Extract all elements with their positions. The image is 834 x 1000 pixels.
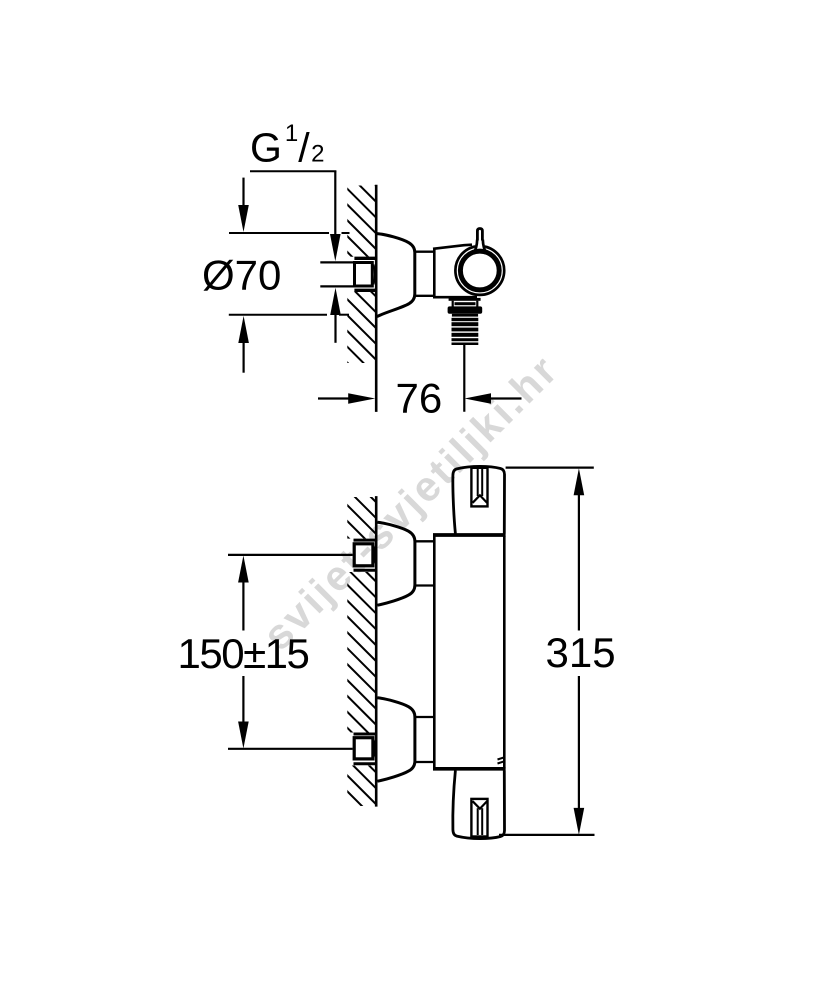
G1/2 shelf line [250,170,336,172]
arrow down left (to escutcheon top) [238,178,249,232]
315 top extension line [506,467,594,469]
union nut (top view) [355,263,373,287]
upper escutcheon [378,522,415,605]
dash of centerline bottom [339,314,349,316]
outlet neck [452,301,454,307]
outlet mark on body [498,757,505,759]
knob thick ring [460,251,499,290]
svg-text:315: 315 [546,629,616,676]
arrow up right (to pipe bottom) [330,288,341,343]
lever funnel white mask [472,239,488,255]
arrow up left (to escutcheon bottom) [238,316,249,373]
wall hatching (bottom view) [340,466,376,820]
lower nut cap curve [374,740,376,758]
upper nut cap curve [374,546,376,565]
315 bottom extension line [499,834,595,836]
lower escutcheon [378,698,415,781]
lower union nut [354,738,373,759]
top handle [453,466,505,533]
flange lines behind nut (top view) [354,257,375,260]
bottom handle grip [471,799,487,837]
315 dim line top segment + arrow up [574,468,585,630]
supply pipe lines [320,261,353,263]
lower neck lines [415,716,434,718]
svg-text:Ø70: Ø70 [202,252,281,299]
lower extension line (150 bottom) [228,748,353,750]
svg-text:76: 76 [396,375,443,422]
upper union nut [354,544,373,566]
nut end cap curve [374,265,376,285]
upper flange lines [354,539,377,542]
lower flange lines [354,733,377,736]
upper extension line (150 top) [228,554,353,556]
315 dim line bottom segment + arrow down [574,676,585,835]
escutcheon (top view) [377,234,415,317]
wall line (bottom view) [375,496,378,806]
lever funnel right side [483,240,487,255]
neck lines (top view) [415,251,435,253]
knob outer circle [455,246,504,295]
lever funnel left side [473,240,477,255]
valve body (top view) [433,248,436,297]
outlet top bar [449,298,481,301]
bottom handle [453,771,505,839]
150 dim line bottom segment + arrow down [238,676,249,749]
svg-text:150±15: 150±15 [178,630,309,677]
dash of centerline top [342,232,350,234]
lever stem [477,229,482,241]
svg-text:G1/2: G1/2 [250,120,325,171]
body (bottom view) [433,536,436,770]
extension line top of escutcheon [229,232,329,234]
outlet nut (black) [448,306,483,313]
dim 76 right arrow [465,393,522,404]
dim 76 left arrow [318,393,375,404]
arrow down right (to pipe top) [330,171,341,261]
wall hatching (top view) [340,150,376,391]
150 dim line top segment + arrow up [238,556,249,631]
wall line (top view) [375,185,378,412]
top handle grip [471,468,487,507]
hose centerline [463,345,465,412]
hose connector ribs [452,318,479,345]
extension line bottom of escutcheon [229,314,327,316]
upper neck lines [415,540,434,542]
